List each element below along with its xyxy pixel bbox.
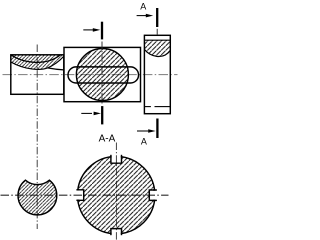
bottom horizontal centerline (through both section circles) — [1, 194, 169, 196]
saddle upper intersection curve — [11, 55, 61, 62]
cutting plane centerline (front view, vertical) — [101, 42, 103, 105]
svg-text:A: A — [141, 137, 147, 147]
svg-text:A-A: A-A — [99, 133, 116, 144]
section arrow, bottom of front view — [81, 112, 101, 116]
section arrow, top of front view — [83, 28, 100, 32]
svg-text:A: A — [140, 2, 146, 12]
notch wall overshoot ticks (S) — [110, 233, 112, 235]
notch wall overshoot ticks (N) — [110, 155, 112, 158]
right view outline rectangle — [144, 35, 170, 113]
cutting line thick tick, above right view — [156, 8, 158, 27]
saddle bottom generatrix line — [48, 68, 64, 70]
cutting line thick tick, below right view — [156, 119, 158, 139]
right view hidden line (dashed) — [144, 106, 151, 108]
section arrow, bottom right (A) — [137, 129, 156, 133]
right view hatched band region — [144, 40, 170, 56]
slot obround (front view) — [68, 67, 139, 83]
notch wall overshoot ticks (W) — [76, 189, 79, 191]
saddle lower intersection curve — [11, 56, 64, 69]
right view slot intersection curve — [144, 49, 170, 56]
small removed section of left cylinder (scooped circle, hatched) — [18, 180, 57, 215]
right view top band edge line — [144, 39, 170, 41]
vertical centerline of section A-A circle — [115, 143, 117, 240]
notch wall overshoot ticks (E) — [153, 189, 157, 191]
cutting line thick tick, bottom of front view — [101, 106, 103, 124]
crescent hatch region (saddle cut, left view) — [11, 55, 64, 69]
vertical centerline of left view and bottom-left section — [36, 45, 38, 230]
front view big cylinder section circle (hatched) — [76, 49, 128, 101]
right view vertical centerline stub — [156, 29, 158, 35]
horizontal axis centerline (gray, through all three upper views) — [3, 74, 178, 76]
left view outline rectangle — [11, 55, 64, 95]
section A-A big circle with four keyway notches (hatched) — [78, 157, 155, 234]
cutting line thick tick, top of front view — [101, 22, 103, 40]
front view block rectangle — [64, 47, 141, 101]
section arrow, top right (A) — [137, 14, 154, 18]
